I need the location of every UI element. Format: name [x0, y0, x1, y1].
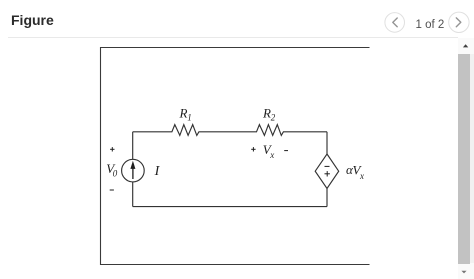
svg-text:1: 1	[187, 113, 192, 123]
svg-text:0: 0	[113, 169, 118, 179]
svg-text:2: 2	[271, 113, 276, 123]
svg-text:R: R	[262, 106, 271, 121]
svg-text:x: x	[269, 150, 274, 160]
svg-text:R: R	[179, 106, 188, 121]
svg-text:x: x	[359, 171, 364, 181]
svg-text:1 of 2: 1 of 2	[416, 19, 445, 31]
svg-text:Figure: Figure	[11, 12, 54, 28]
